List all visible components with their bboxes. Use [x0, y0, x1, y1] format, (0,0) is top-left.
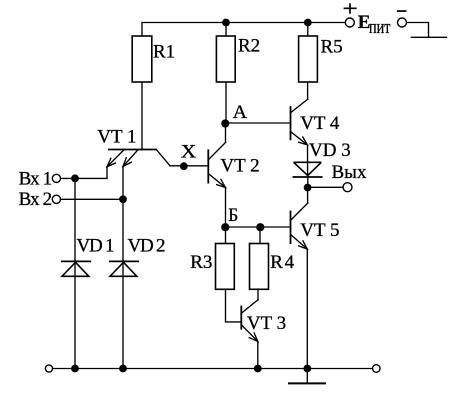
wire VT4 emitter to VD3 [307, 145, 309, 177]
node B dot [221, 223, 229, 231]
junction dot rail-VD2 [119, 365, 127, 373]
svg-text:VT 4: VT 4 [300, 113, 340, 134]
terminal input 1 [52, 174, 60, 182]
svg-text:Х: Х [181, 142, 197, 163]
terminal + Epit [345, 18, 354, 27]
wire VT3 emitter to rail [257, 341, 259, 368]
svg-text:пит: пит [369, 17, 391, 38]
wire output [308, 186, 343, 188]
wire R2 to node A [225, 82, 227, 123]
junction dot rail-VD1 [71, 365, 79, 373]
wire input2 [61, 198, 124, 200]
node A dot [221, 119, 229, 127]
wire node A to VT4 base [226, 122, 291, 124]
terminal input 2 [52, 195, 60, 203]
wire VT1 emitter1 to input1 line [106, 167, 108, 178]
wire ground stub [306, 369, 308, 383]
junction dot rail-R2 [222, 19, 230, 27]
junction dot rail-ground [303, 365, 311, 373]
plus sign of supply [344, 3, 357, 14]
wire VT2 emitter to node B [225, 188, 227, 228]
minus sign of supply [397, 10, 407, 12]
transistor VT5 [291, 203, 308, 249]
svg-text:А: А [233, 102, 248, 123]
transistor VT2 [208, 143, 225, 188]
svg-text:R3: R3 [190, 252, 212, 273]
wire VT2 collector to A [225, 123, 227, 143]
output node dot [304, 184, 312, 192]
wire VT5 emitter to rail [306, 249, 308, 368]
svg-text:Вх 2: Вх 2 [19, 189, 53, 210]
terminal output [343, 183, 352, 192]
junction dot input1-VD1 [71, 175, 79, 183]
diode VD2 [109, 261, 139, 276]
wire R1 to VT1 base [141, 82, 143, 150]
svg-text:Б: Б [228, 205, 238, 226]
resistor R3 [216, 244, 235, 290]
wire node B to R3 [225, 227, 227, 244]
junction dot input2-VD2 [119, 195, 127, 203]
wire VD2 branch [122, 167, 124, 369]
node X dot [180, 162, 188, 170]
resistor R4 [250, 244, 269, 290]
wire VD3 to output node [307, 177, 309, 188]
terminal - Epit [398, 18, 407, 27]
wire VD1 branch [74, 178, 76, 368]
terminal bottom left [45, 365, 52, 372]
svg-text:VT 2: VT 2 [220, 155, 259, 176]
svg-text:Вых: Вых [332, 162, 367, 183]
wire minus terminal lead [407, 23, 429, 38]
svg-text:VT 5: VT 5 [300, 220, 339, 241]
wire top supply rail [142, 22, 345, 24]
wire bottom rail [53, 368, 373, 370]
svg-text:VD 2: VD 2 [128, 236, 166, 257]
junction dot B-R4 [256, 223, 264, 231]
wire node B to VT5 base [226, 226, 291, 228]
svg-text:VD 3: VD 3 [309, 140, 351, 161]
wire input1 [61, 177, 108, 179]
diode VD3 [293, 162, 323, 177]
wire rail to R5 [307, 23, 309, 37]
svg-text:VT 1: VT 1 [97, 127, 136, 148]
svg-text:VD 1: VD 1 [77, 236, 115, 257]
svg-text:R2: R2 [238, 36, 260, 57]
wire R4 to VT3 collector [257, 289, 259, 300]
wire rail to R1 [141, 23, 143, 37]
diode VD1 [61, 261, 91, 276]
wire minus terminal bar [411, 36, 446, 38]
svg-text:Вх 1: Вх 1 [19, 169, 53, 190]
wire rail to R2 [225, 23, 227, 37]
svg-text:R1: R1 [153, 42, 175, 63]
transistor VT1 [107, 150, 170, 167]
wire output node to VT5 collector [307, 188, 309, 204]
transistor VT3 [241, 300, 258, 342]
ground bar [288, 382, 326, 384]
svg-text:VT 3: VT 3 [247, 313, 286, 334]
wire B junction to R4 [259, 227, 261, 244]
terminal bottom right [373, 365, 381, 373]
resistor R1 [132, 36, 152, 82]
resistor R2 [216, 36, 235, 82]
resistor R5 [299, 36, 318, 82]
transistor VT4 [291, 99, 308, 145]
junction dot rail-VT3 [254, 365, 262, 373]
wire VT1 collector to VT2 base [170, 165, 208, 167]
junction dot rail-R5 [304, 19, 312, 27]
wire VT4 collector to R5 [307, 82, 309, 99]
svg-text:R5: R5 [321, 37, 343, 58]
wire R3 to VT3 base [226, 289, 242, 322]
svg-text:R4: R4 [270, 252, 295, 273]
